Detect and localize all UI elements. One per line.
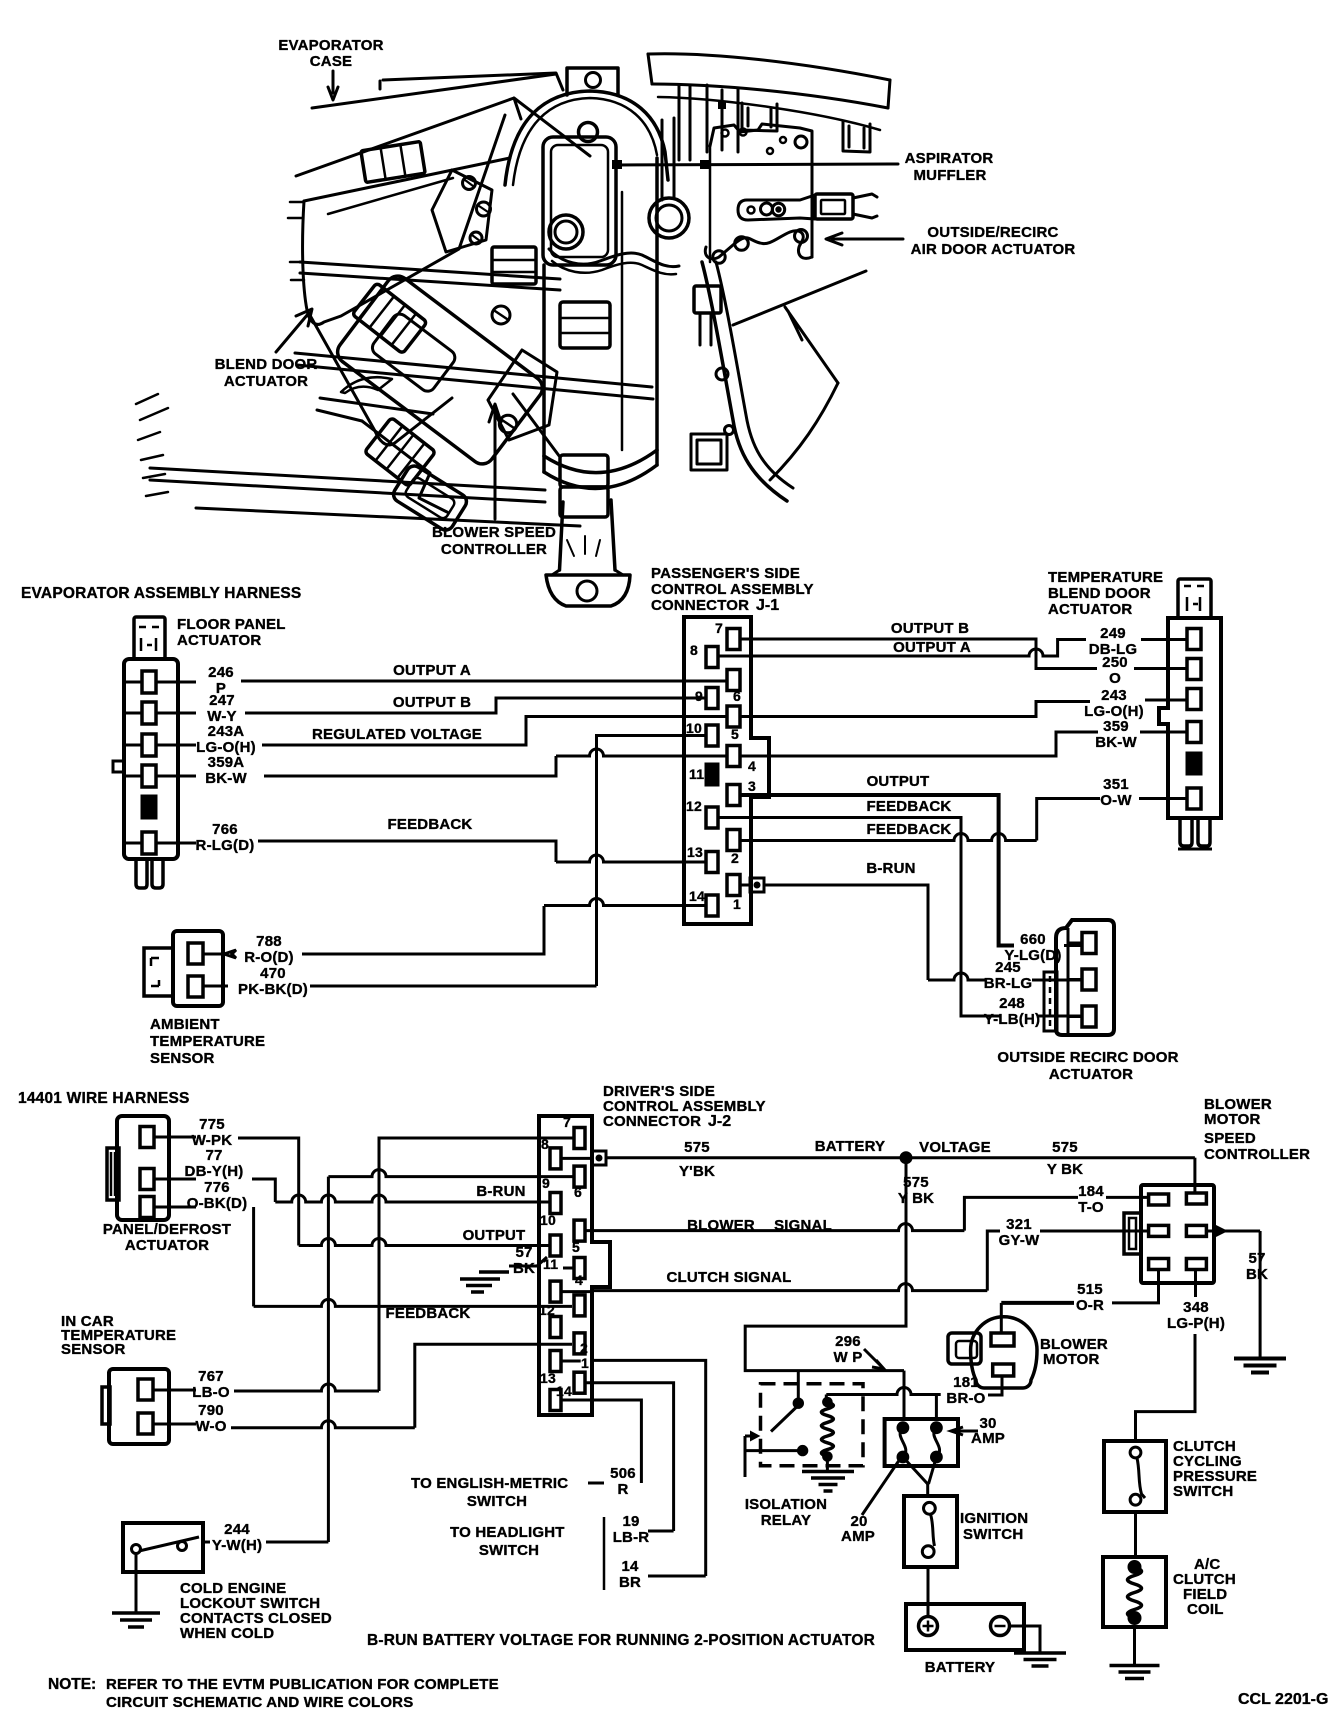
svg-text:BK-W: BK-W [205, 770, 247, 787]
PDA pin 3 [140, 1197, 154, 1218]
isolation relay coil feed [825, 1395, 828, 1400]
small ring lower left [549, 215, 583, 249]
svg-text:776: 776 [204, 1179, 230, 1196]
FPA pin row 4 [124, 775, 196, 778]
svg-text:EVAPORATOR ASSEMBLY HARNESS: EVAPORATOR ASSEMBLY HARNESS [21, 585, 301, 602]
J-1 pin4 wire to 359 [740, 732, 1098, 756]
recirc actuator pin 2 [1082, 969, 1096, 990]
switch: cold engine lockout [123, 1523, 203, 1572]
svg-text:Y BK: Y BK [1047, 1161, 1083, 1178]
svg-text:PANEL/DEFROST: PANEL/DEFROST [103, 1221, 231, 1238]
central cylinder (blower housing) [544, 158, 657, 472]
svg-text:BLOWER SPEED: BLOWER SPEED [432, 524, 556, 541]
recirc mounting bracket dashed [1044, 972, 1057, 1031]
svg-text:O-BK(D): O-BK(D) [187, 1195, 248, 1212]
svg-text:660: 660 [1020, 931, 1046, 948]
svg-text:B-RUN BATTERY VOLTAGE FOR RUNN: B-RUN BATTERY VOLTAGE FOR RUNNING 2-POSI… [367, 1632, 875, 1649]
OUTPUT wire to J-2 pin10 [299, 1239, 550, 1246]
FPA pin row 6 [124, 842, 196, 845]
svg-text:ACTUATOR: ACTUATOR [125, 1237, 209, 1254]
cowl wedge upper [312, 74, 556, 108]
svg-text:R-O(D): R-O(D) [244, 949, 294, 966]
svg-text:2: 2 [731, 850, 739, 866]
svg-text:SWITCH: SWITCH [467, 1493, 527, 1510]
J-2 pin11 stub [563, 1267, 574, 1270]
57 BK wire down [1259, 1231, 1262, 1357]
svg-text:6: 6 [574, 1184, 582, 1200]
wire 243 into blend actuator pin3 [1145, 699, 1187, 702]
svg-text:767: 767 [198, 1368, 224, 1385]
J-2 right pin row 1 [574, 1128, 585, 1149]
svg-text:BR: BR [619, 1574, 641, 1591]
svg-text:7: 7 [715, 620, 723, 636]
J-2 right pin row 6 [574, 1333, 585, 1354]
FPA pin row 2 [124, 712, 196, 715]
svg-text:FEEDBACK: FEEDBACK [867, 821, 952, 838]
svg-text:7: 7 [563, 1114, 571, 1130]
svg-text:SWITCH: SWITCH [1173, 1483, 1233, 1500]
wire 243A to J-1 pin5 [262, 717, 727, 746]
J-2 right pin row 7 [574, 1372, 585, 1393]
svg-text:5: 5 [731, 726, 739, 742]
J-1 left pin 11 [706, 764, 718, 785]
blend actuator pin 5 [1187, 753, 1201, 774]
svg-text:575: 575 [684, 1139, 710, 1156]
wire 181 BR-O to fuse [826, 1388, 940, 1395]
wire to 19 LB-R [585, 1383, 674, 1531]
clamp block mid [492, 247, 536, 284]
actuator arm [738, 195, 815, 220]
svg-text:OUTSIDE/RECIRC: OUTSIDE/RECIRC [927, 224, 1058, 241]
J-2 right pin row 4 [574, 1258, 585, 1279]
J-2 right pin row 5 [574, 1295, 585, 1316]
svg-text:ISOLATION: ISOLATION [745, 1496, 827, 1513]
grommet double ring [649, 198, 689, 238]
svg-text:BK: BK [1246, 1266, 1268, 1283]
aspirator muffler plate [710, 124, 812, 257]
svg-text:CONTROLLER: CONTROLLER [1204, 1146, 1310, 1163]
wire 359 into blend actuator pin4 [1140, 731, 1187, 734]
J-1 pin8 output A right wire [718, 655, 1029, 658]
svg-text:359A: 359A [208, 754, 245, 771]
J-2 right pin row 3 [574, 1220, 585, 1241]
svg-text:IGNITION: IGNITION [960, 1510, 1028, 1527]
blend actuator pin 3 [1187, 689, 1201, 710]
lower bent duct [317, 398, 433, 421]
second wedge [296, 98, 590, 176]
svg-text:LG-P(H): LG-P(H) [1167, 1315, 1225, 1332]
svg-text:W P: W P [834, 1349, 863, 1366]
J-1 right pin 6 [727, 670, 740, 691]
svg-text:WHEN COLD: WHEN COLD [180, 1625, 274, 1642]
svg-text:14: 14 [689, 888, 705, 904]
wire 470 riser to J-1 pin10 [597, 736, 708, 987]
575 feed to isolation relay & fuse [745, 1163, 906, 1371]
svg-text:ACTUATOR: ACTUATOR [1048, 601, 1132, 618]
vertical pillar left [662, 118, 674, 200]
wire 359A to J-1 pin4 [556, 749, 727, 756]
J-1 pin5 wire to 243 [740, 702, 1090, 717]
wire 246 to J-1 pin6 [241, 680, 727, 683]
hinge block on case top [361, 142, 425, 183]
svg-text:VOLTAGE: VOLTAGE [919, 1139, 991, 1156]
svg-text:Y BK: Y BK [898, 1190, 934, 1207]
svg-text:OUTPUT B: OUTPUT B [393, 694, 471, 711]
svg-text:TEMPERATURE: TEMPERATURE [1048, 569, 1163, 586]
actuator screws [492, 306, 510, 324]
cowl band top right [648, 54, 890, 108]
J-2 left pin row 7 [550, 1390, 561, 1411]
svg-text:348: 348 [1183, 1299, 1209, 1316]
clutch cycling pressure switch [1104, 1441, 1166, 1512]
svg-text:4: 4 [575, 1272, 583, 1288]
svg-text:CONNECTOR: CONNECTOR [603, 1113, 701, 1130]
outside/recirc leader arrow [826, 233, 903, 245]
svg-text:MUFFLER: MUFFLER [913, 167, 986, 184]
svg-text:BK: BK [513, 1260, 535, 1277]
svg-text:BR-O: BR-O [946, 1390, 985, 1407]
arrow 30 amp [951, 1427, 978, 1435]
svg-text:11: 11 [689, 766, 704, 782]
svg-text:GY-W: GY-W [999, 1232, 1040, 1249]
left edge weld ticks [288, 202, 304, 280]
svg-text:OUTPUT: OUTPUT [867, 773, 930, 790]
svg-text:775: 775 [199, 1116, 225, 1133]
svg-text:LB-O: LB-O [192, 1384, 230, 1401]
svg-text:4: 4 [748, 758, 756, 774]
svg-text:181: 181 [953, 1374, 979, 1391]
wire 321 into BMSC [1040, 1230, 1149, 1233]
svg-text:SENSOR: SENSOR [61, 1341, 126, 1358]
svg-text:TO ENGLISH-METRIC: TO ENGLISH-METRIC [411, 1475, 568, 1492]
svg-text:243: 243 [1101, 687, 1127, 704]
BMSC 515 wire to blower motor [1112, 1269, 1159, 1303]
svg-text:REFER TO THE EVTM PUBLICATION: REFER TO THE EVTM PUBLICATION FOR COMPLE… [106, 1676, 499, 1693]
hose squiggle [549, 249, 679, 267]
svg-text:CONTROLLER: CONTROLLER [441, 541, 547, 558]
svg-text:DB-Y(H): DB-Y(H) [185, 1163, 244, 1180]
J-2 box [539, 1116, 610, 1415]
J-2 right pin row 2 [574, 1166, 585, 1187]
svg-text:12: 12 [539, 1302, 555, 1318]
fuse box 30 amp [885, 1419, 958, 1466]
svg-text:J-2: J-2 [708, 1113, 731, 1130]
svg-text:9: 9 [542, 1175, 550, 1191]
blend actuator pin 1 [1187, 629, 1201, 650]
svg-text:77: 77 [205, 1147, 222, 1164]
recirc actuator pin 1 [1082, 933, 1096, 954]
svg-text:19: 19 [622, 1513, 639, 1530]
svg-text:575: 575 [903, 1174, 929, 1191]
diamond mounting plate [488, 350, 557, 440]
svg-text:SPEED: SPEED [1204, 1130, 1256, 1147]
FPA pin row 1 [124, 681, 196, 684]
svg-text:246: 246 [208, 664, 234, 681]
J-1 right pin 4 [727, 746, 740, 767]
svg-text:R: R [617, 1481, 628, 1498]
wire 184 into BMSC [1106, 1196, 1149, 1199]
svg-text:57: 57 [515, 1244, 532, 1261]
svg-text:14: 14 [556, 1383, 572, 1399]
battery neg wire [1010, 1626, 1041, 1652]
svg-text:9: 9 [695, 688, 703, 704]
left edge ticks [136, 394, 168, 496]
J-1 left pin 10 [706, 725, 718, 746]
BMSC body [1141, 1185, 1214, 1283]
long rod to cylinder [295, 353, 653, 399]
svg-text:REGULATED VOLTAGE: REGULATED VOLTAGE [312, 726, 482, 743]
fuse element right [934, 1428, 940, 1457]
svg-text:ACTUATOR: ACTUATOR [1049, 1066, 1133, 1083]
svg-text:AIR DOOR ACTUATOR: AIR DOOR ACTUATOR [911, 241, 1076, 258]
arrow stub 788 [203, 950, 236, 958]
upper diamond plate with screws [432, 170, 492, 252]
sensor: ambient temperature [173, 931, 223, 1006]
motor top wire [1000, 1303, 1003, 1333]
svg-text:CCL 2201-G: CCL 2201-G [1238, 1691, 1328, 1708]
crossing diagonals [733, 271, 866, 383]
svg-text:BLEND DOOR: BLEND DOOR [1048, 585, 1151, 602]
BLOWER SIGNAL wire [585, 1224, 964, 1231]
svg-text:10: 10 [686, 720, 702, 736]
J-1 right pin 5 [727, 706, 740, 727]
svg-text:PK-BK(D): PK-BK(D) [238, 981, 308, 998]
svg-text:ASPIRATOR: ASPIRATOR [905, 150, 994, 167]
wire 244 run [266, 1541, 328, 1544]
blower motor [971, 1317, 1037, 1388]
wire 776 to J-2 pin12 : FEEDBACK [252, 1207, 255, 1306]
J-2 left pin row 3 [550, 1235, 561, 1256]
J-1 left pin 13 [706, 852, 718, 873]
svg-text:MOTOR: MOTOR [1043, 1351, 1100, 1368]
arm plug end [815, 194, 853, 219]
svg-text:506: 506 [610, 1465, 636, 1482]
svg-text:6: 6 [733, 688, 741, 704]
svg-text:248: 248 [999, 995, 1025, 1012]
B-RUN riser V2 [327, 1177, 330, 1542]
relay feed left [745, 1436, 798, 1477]
svg-text:CLUTCH SIGNAL: CLUTCH SIGNAL [666, 1269, 791, 1286]
blend actuator body [1159, 618, 1221, 818]
J-1 left pin 14 [706, 895, 718, 916]
svg-text:788: 788 [256, 933, 282, 950]
svg-text:BATTERY: BATTERY [925, 1659, 996, 1676]
wire 247 to J-1 pin9 [245, 698, 707, 713]
J-1 right pin 2 [727, 830, 740, 851]
wire 775 to V1 riser then OUTPUT line to J-2 pin10 [238, 1138, 299, 1246]
junction dot 575 [901, 1152, 912, 1163]
svg-text:TO HEADLIGHT: TO HEADLIGHT [450, 1524, 565, 1541]
svg-text:TEMPERATURE: TEMPERATURE [150, 1033, 265, 1050]
svg-text:AMP: AMP [841, 1528, 875, 1545]
svg-text:T-O: T-O [1078, 1199, 1104, 1216]
svg-text:J-1: J-1 [756, 597, 779, 614]
575 Y-BK battery voltage wire [606, 1156, 1195, 1159]
wire 790 run [231, 1421, 415, 1428]
svg-text:BLEND DOOR: BLEND DOOR [215, 356, 318, 373]
motor bottom wire 181 [988, 1376, 1002, 1395]
wire 245 into recirc actuator pin2 [1032, 979, 1082, 982]
dome circle hole [579, 123, 598, 142]
band clips [742, 103, 777, 131]
svg-text:1: 1 [581, 1355, 589, 1371]
ribbed connector on actuator [352, 283, 427, 354]
relay contact blade [771, 1408, 796, 1432]
svg-text:O-W: O-W [1100, 792, 1132, 809]
battery minus [995, 1625, 1006, 1628]
feed to fuse [903, 1371, 906, 1419]
relay contact dot lower [798, 1446, 807, 1455]
wire 248 into recirc actuator pin3 [1038, 1015, 1082, 1018]
svg-text:Y'BK: Y'BK [679, 1163, 715, 1180]
funnel foot [546, 575, 630, 606]
relay coil [821, 1402, 833, 1456]
svg-text:470: 470 [260, 965, 286, 982]
J-2 pin8 wire + terminal + 575 battery voltage line [561, 1157, 592, 1160]
svg-text:OUTPUT B: OUTPUT B [891, 620, 969, 637]
svg-text:14401 WIRE HARNESS: 14401 WIRE HARNESS [18, 1090, 190, 1107]
svg-text:790: 790 [198, 1402, 224, 1419]
blend actuator pin 4 [1187, 722, 1201, 743]
BMSC pin 3 [1149, 1225, 1169, 1236]
V3 riser to J-2 pin7 [379, 1138, 574, 1391]
vertical pillar pair [679, 85, 690, 160]
J-1 right pin 7 [727, 629, 740, 650]
svg-text:OUTPUT: OUTPUT [463, 1227, 526, 1244]
svg-text:244: 244 [224, 1521, 250, 1538]
svg-text:296: 296 [835, 1333, 861, 1350]
BMSC left tab [1124, 1213, 1141, 1254]
horizontal rails [150, 468, 580, 526]
dome arch [505, 91, 668, 185]
J-2 left pin row 1 [550, 1148, 561, 1169]
wire 77 to J-2 pin9 [252, 1179, 275, 1202]
FPA pin row 3 [124, 744, 196, 747]
svg-text:1: 1 [733, 896, 741, 912]
right C-bracket [702, 262, 787, 501]
ignition blade [931, 1514, 935, 1546]
wire to 14 BR [592, 1360, 706, 1576]
svg-text:245: 245 [995, 959, 1021, 976]
svg-text:250: 250 [1102, 654, 1128, 671]
ignition switch [904, 1496, 957, 1567]
FEEDBACK wire to J-2 pin12 [254, 1299, 572, 1306]
J-2 left pin row 2 [550, 1193, 561, 1214]
blend door actuator body [333, 271, 547, 468]
arrow 296 [864, 1349, 884, 1369]
wire 250 into blend actuator pin2 [1134, 667, 1187, 670]
J-2 left pin row 6 [550, 1351, 561, 1372]
svg-text:OUTPUT A: OUTPUT A [893, 639, 971, 656]
svg-text:FEEDBACK: FEEDBACK [867, 798, 952, 815]
svg-text:SENSOR: SENSOR [150, 1050, 215, 1067]
svg-text:FEEDBACK: FEEDBACK [386, 1305, 471, 1322]
J-2 left pin row 5 [550, 1317, 561, 1338]
svg-text:O-R: O-R [1076, 1297, 1104, 1314]
svg-text:184: 184 [1078, 1183, 1104, 1200]
BMSC right terminal + 57 BK ground [1207, 1230, 1228, 1233]
ground 57 BK [1234, 1357, 1286, 1361]
funnel [560, 500, 616, 570]
battery plus [923, 1621, 934, 1632]
battery box [906, 1604, 1024, 1650]
svg-text:B-RUN: B-RUN [866, 860, 915, 877]
aspirator leader line [616, 164, 898, 165]
svg-text:3: 3 [748, 778, 756, 794]
wire 790 riser [415, 1344, 572, 1428]
upper rails [300, 262, 560, 290]
svg-text:RELAY: RELAY [761, 1512, 811, 1529]
svg-text:ACTUATOR: ACTUATOR [224, 373, 308, 390]
ground field coil [1110, 1664, 1160, 1668]
svg-text:CIRCUIT SCHEMATIC AND WIRE COL: CIRCUIT SCHEMATIC AND WIRE COLORS [106, 1694, 413, 1711]
B-RUN wire down [764, 885, 928, 980]
pressure switch blade [1137, 1458, 1145, 1498]
BMSC pin 6 [1186, 1259, 1206, 1270]
svg-text:766: 766 [212, 821, 238, 838]
svg-text:13: 13 [687, 844, 703, 860]
evaporator case left panel [303, 115, 505, 324]
BMSC 348 wire down [1194, 1269, 1197, 1297]
wire 77 to J-2 pin9 [275, 1195, 550, 1202]
svg-text:13: 13 [540, 1370, 556, 1386]
J-1 left pin 9 [706, 688, 718, 709]
relay contact dot upper [794, 1399, 803, 1408]
FPA pin row 5 [142, 796, 156, 818]
svg-text:Y-W(H): Y-W(H) [212, 1537, 262, 1554]
wire 788 to J-1 pin14 [544, 899, 707, 906]
svg-text:CASE: CASE [310, 53, 352, 70]
wire 470 run [310, 985, 597, 988]
fuse element left [900, 1428, 906, 1457]
svg-text:247: 247 [209, 692, 235, 709]
svg-text:10: 10 [540, 1212, 556, 1228]
PDA pin 2 [140, 1169, 154, 1190]
recirc actuator pin 3 [1082, 1006, 1096, 1027]
svg-text:OUTPUT A: OUTPUT A [393, 662, 471, 679]
B-RUN wire to 245 [928, 973, 986, 980]
svg-text:14: 14 [621, 1558, 639, 1575]
field coil [1128, 1567, 1142, 1618]
wire 351 into blend actuator pin6 [1139, 797, 1187, 800]
wire 348 to pressure switch [1136, 1334, 1196, 1441]
svg-text:OUTSIDE RECIRC DOOR: OUTSIDE RECIRC DOOR [997, 1049, 1178, 1066]
svg-text:B-RUN: B-RUN [476, 1183, 525, 1200]
wire 788 jog up [302, 906, 544, 954]
svg-text:BR-LG: BR-LG [984, 975, 1033, 992]
BMSC pin 4 [1186, 1225, 1206, 1236]
connector: floor panel actuator [124, 659, 178, 859]
blend actuator pin 6 [1187, 788, 1201, 809]
svg-text:FEEDBACK: FEEDBACK [388, 816, 473, 833]
svg-text:BATTERY: BATTERY [815, 1138, 886, 1155]
OUTPUT A crossover to 249 [718, 640, 1086, 657]
top tab with hole [567, 68, 618, 95]
BMSC pin 5 [1149, 1259, 1169, 1270]
rail clamp blocks [560, 455, 608, 487]
svg-text:CONNECTOR: CONNECTOR [651, 597, 749, 614]
svg-text:AMBIENT: AMBIENT [150, 1016, 220, 1033]
svg-text:5: 5 [572, 1239, 580, 1255]
J-1 left pin 12 [706, 807, 718, 828]
isolation relay dashed box [761, 1384, 864, 1466]
wire 767 run [234, 1384, 379, 1391]
BMSC pin 1 [1149, 1194, 1169, 1205]
181 drop to fuse [935, 1395, 938, 1420]
wire 249 into blend actuator pin1 [1141, 638, 1187, 641]
svg-text:321: 321 [1006, 1216, 1032, 1233]
svg-text:NOTE:: NOTE: [48, 1676, 96, 1693]
